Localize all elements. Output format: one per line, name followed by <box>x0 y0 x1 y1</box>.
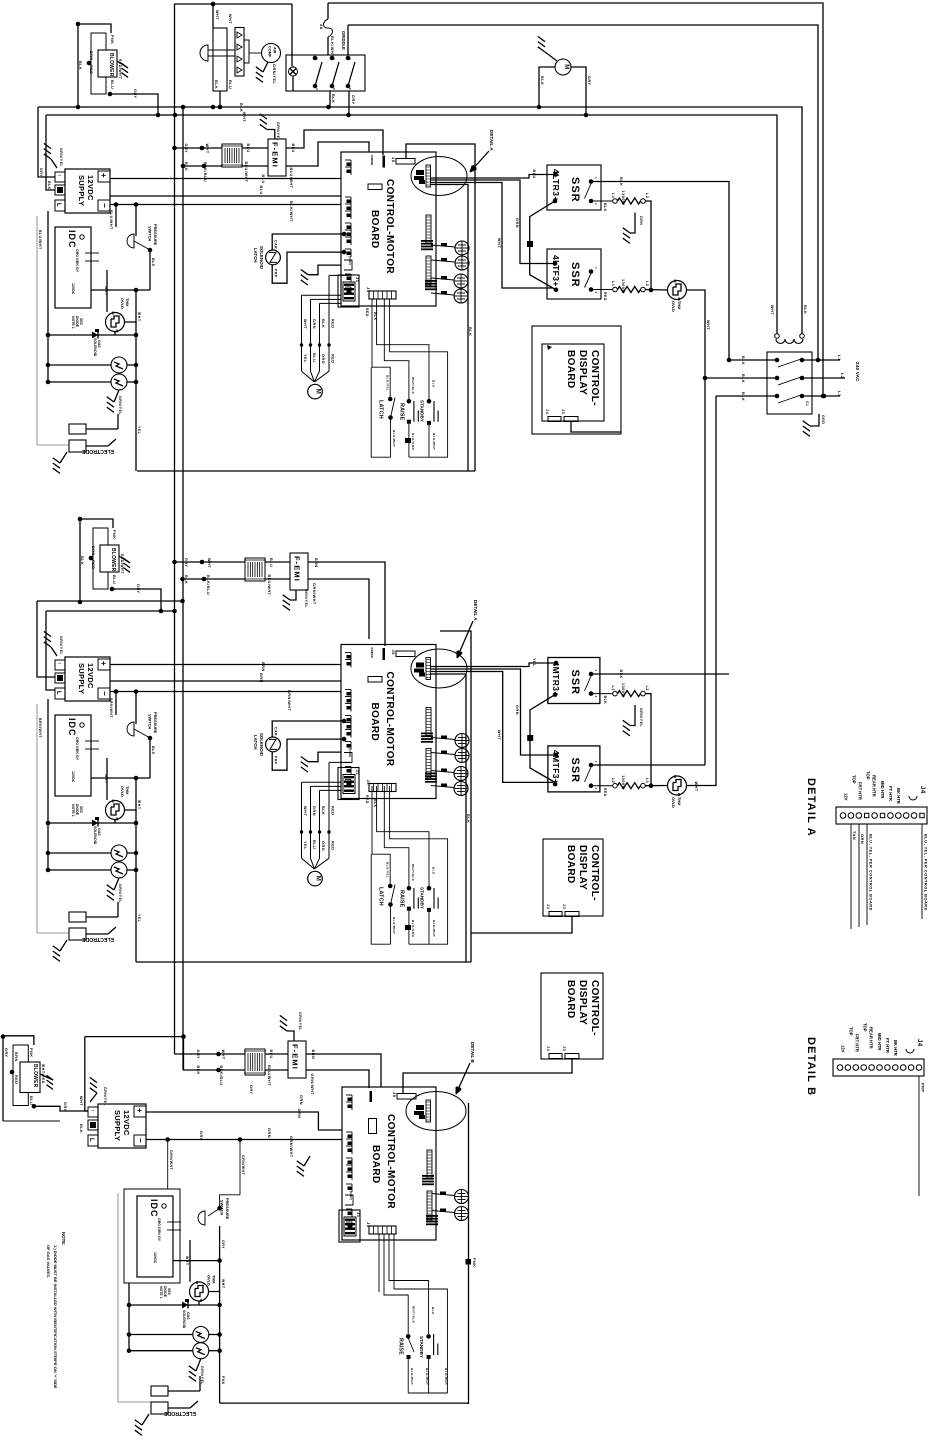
svg-text:TOP: TOP <box>852 775 857 784</box>
svg-text:SUPPLY: SUPPLY <box>113 1110 122 1141</box>
connector J3 DSP3 <box>565 1054 579 1059</box>
svg-text:DETAIL B: DETAIL B <box>470 1042 475 1063</box>
switch block bottom sec3 <box>408 1392 447 1394</box>
svg-text:YEL: YEL <box>532 658 536 667</box>
svg-text:SSR: SSR <box>569 177 581 203</box>
control-motor board U1 <box>341 152 436 306</box>
svg-text:MID HTR: MID HTR <box>877 1033 882 1050</box>
svg-text:LATCH: LATCH <box>378 400 384 419</box>
ground SSR resistor R1 <box>630 213 635 234</box>
control-display board DSP1 <box>532 326 621 434</box>
svg-text:WHT: WHT <box>215 10 219 20</box>
switch RAISE sec1 <box>407 399 412 404</box>
connector J4 detail A <box>836 807 927 824</box>
svg-text:PRESSURE: PRESSURE <box>153 224 158 246</box>
pressure switch PS2 <box>135 692 137 725</box>
wire TB1 row2 left <box>705 377 777 379</box>
svg-text:SSR: SSR <box>569 262 581 288</box>
svg-text:RED: RED <box>14 1075 18 1085</box>
indicator lamp DS1 <box>289 67 298 76</box>
svg-text:STANDBY: STANDBY <box>420 400 425 422</box>
wire F-EMI1 input hot <box>175 147 223 149</box>
power supply S3 12VDC SUPPLY <box>98 1104 146 1148</box>
svg-text:YEL: YEL <box>137 426 141 435</box>
svg-text:DETAIL A: DETAIL A <box>805 778 817 837</box>
wire DSP3 out <box>403 1059 572 1094</box>
wire TB1 row3 left <box>716 395 777 397</box>
svg-text:BLK: BLK <box>741 374 745 383</box>
wire F-EMI1 out 1 <box>286 130 383 155</box>
svg-text:2: 2 <box>594 292 598 294</box>
svg-text:WHT: WHT <box>242 112 246 122</box>
svg-text:BLU/WHT: BLU/WHT <box>38 230 42 250</box>
svg-text:ORN: ORN <box>297 1109 301 1119</box>
relay K1 contact 2 <box>330 56 335 61</box>
line filter choke L2F <box>245 558 265 581</box>
detail connector ellipse board U1 <box>411 157 467 196</box>
connector J3 board U2 <box>369 784 396 792</box>
switch STANDBY sec3 <box>426 1334 431 1339</box>
wire SSR3 to SSR4 series link <box>530 695 556 783</box>
ground blower B3 <box>40 1074 53 1080</box>
svg-text:GRY: GRY <box>249 1085 253 1095</box>
svg-text:BLU: BLU <box>228 80 232 89</box>
diode D2 <box>92 820 98 827</box>
wire supply S2 plus to board <box>110 664 341 666</box>
solid state relay SSR4 <box>548 746 600 792</box>
wire board U1 line 4 down <box>430 185 468 472</box>
svg-text:PRP: PRP <box>274 756 278 765</box>
circuit breaker CB1 4A <box>327 3 329 19</box>
svg-text:J1: J1 <box>355 277 360 283</box>
wire blower B2 left drop <box>79 519 81 602</box>
ground igniters sec3 <box>196 1359 201 1371</box>
svg-text:BLU: BLU <box>110 80 114 89</box>
svg-text:BLU, YEL, PER CONTROL BOARD: BLU, YEL, PER CONTROL BOARD <box>869 834 874 911</box>
wire F-EMI3 input hot <box>175 1053 246 1055</box>
board U1 output connector strips <box>426 215 431 243</box>
svg-text:BLK/WHT: BLK/WHT <box>330 36 334 57</box>
wire sec3 left drop <box>128 1283 130 1351</box>
svg-text:J3: J3 <box>561 409 566 415</box>
svg-text:BRN: BRN <box>89 51 93 61</box>
svg-text:TAN: TAN <box>852 831 857 840</box>
wire SSR1 out to terminal row 1 <box>591 182 729 361</box>
svg-text:GRN/YEL: GRN/YEL <box>118 396 122 415</box>
thermal overload THM1 <box>106 313 125 332</box>
relay K1 contact 1 <box>313 56 318 61</box>
switch LATCH sec2 <box>388 884 393 889</box>
svg-text:REAR HTR: REAR HTR <box>872 775 877 797</box>
svg-text:12VDC: 12VDC <box>71 283 75 295</box>
igniter E4 <box>111 862 127 878</box>
switch STANDBY sec1 <box>427 399 432 404</box>
svg-text:WHT: WHT <box>185 1256 189 1266</box>
svg-text:WHT: WHT <box>497 238 501 248</box>
ground fan motor M5 <box>545 52 557 61</box>
svg-text:GRY: GRY <box>196 1050 200 1060</box>
wire SSR3 pin2 to resistor R3 <box>591 693 612 695</box>
wire IDC1 gy to THM <box>106 270 108 312</box>
ground board U3 <box>304 1156 310 1166</box>
svg-text:GRN/YEL: GRN/YEL <box>59 636 63 655</box>
svg-text:SWITCH: SWITCH <box>148 714 153 730</box>
wire supply S1 minus to board <box>110 204 341 206</box>
section 3 bottom boundary <box>220 1402 469 1404</box>
svg-text:GRN/YEL: GRN/YEL <box>118 884 122 903</box>
svg-text:BLU: BLU <box>532 170 536 179</box>
svg-text:L1: L1 <box>611 686 615 691</box>
svg-text:GRIDDLE: GRIDDLE <box>341 31 346 50</box>
wire THM1 right <box>125 290 136 322</box>
svg-text:GY: GY <box>75 267 79 273</box>
transformer T1 primary coil <box>775 334 780 339</box>
svg-text:1300W: 1300W <box>621 191 625 206</box>
detail connector ellipse board U3 <box>406 1092 466 1131</box>
svg-text:RED: RED <box>331 841 335 851</box>
svg-text:1.) DIODE MUST BE INSTALLED WI: 1.) DIODE MUST BE INSTALLED WITH IDENTIF… <box>53 1245 58 1389</box>
svg-text:12V: 12V <box>841 1045 846 1053</box>
svg-text:GRN/WHT: GRN/WHT <box>310 1074 314 1096</box>
svg-text:WHT: WHT <box>221 1050 225 1060</box>
svg-text:[CHR]: [CHR] <box>349 1191 353 1200</box>
svg-text:BLK/GRN: BLK/GRN <box>411 920 415 937</box>
svg-text:GRY: GRY <box>199 1131 203 1141</box>
control-display board DSP2 <box>543 839 603 916</box>
wire J1 fan leads sec1 <box>302 294 342 296</box>
svg-text:1: 1 <box>594 670 598 672</box>
svg-text:BRN/WHT: BRN/WHT <box>38 718 42 738</box>
driver transistors U3 <box>455 1190 469 1204</box>
connector J4 DSP3 <box>549 1054 562 1059</box>
svg-text:J1: J1 <box>356 1212 361 1218</box>
svg-text:BLU: BLU <box>312 353 316 362</box>
diode D1 <box>92 332 98 339</box>
svg-text:REAR HTR: REAR HTR <box>869 1027 874 1049</box>
wire top bus A <box>174 3 292 5</box>
igniter E6 <box>193 1343 209 1359</box>
svg-text:BLK: BLK <box>47 181 51 190</box>
wire sec3 right drop <box>219 1292 221 1404</box>
wire gas valve row <box>48 334 136 336</box>
svg-text:RED/WHT: RED/WHT <box>118 59 122 79</box>
svg-text:BOARD: BOARD <box>369 210 380 249</box>
svg-text:4: 4 <box>315 88 319 90</box>
wire SSR2 pin2 to resistor R2 <box>591 289 612 291</box>
svg-text:BLK: BLK <box>239 103 243 112</box>
svg-text:GRN/WHT: GRN/WHT <box>289 1136 293 1158</box>
wire bus to supply S1 terminal 1 <box>38 107 55 177</box>
wire pressure switch PS2 down <box>149 738 151 778</box>
svg-text:RED: RED <box>365 795 369 804</box>
svg-text:BLOWER: BLOWER <box>108 53 114 77</box>
blower motor B2 <box>78 517 83 522</box>
svg-text:L3: L3 <box>645 778 649 783</box>
svg-text:SSR: SSR <box>569 758 581 784</box>
svg-text:RED: RED <box>331 806 335 816</box>
svg-text:OVLD: OVLD <box>120 298 125 309</box>
wire sec3 bus to supply <box>85 1036 184 1038</box>
svg-text:↑: ↑ <box>56 174 62 178</box>
ground blower B1 <box>117 61 128 68</box>
wire DSP1 to enclosure <box>571 422 621 433</box>
svg-text:L2: L2 <box>645 193 649 198</box>
wire YEL down sec1 <box>135 322 137 382</box>
svg-text:F-EMI: F-EMI <box>293 556 302 582</box>
svg-text:J4: J4 <box>546 1046 551 1052</box>
wire top bus B <box>328 3 823 396</box>
board U3 connector strips <box>427 1150 432 1178</box>
relay K1 contact 3 <box>346 56 351 61</box>
svg-text:BLK/WHT: BLK/WHT <box>410 1368 414 1385</box>
svg-text:J5: J5 <box>392 1092 397 1098</box>
svg-text:BLU/WHT: BLU/WHT <box>244 162 248 183</box>
wire J3 drops sec3 <box>378 1234 380 1292</box>
svg-text:BLK/WHT: BLK/WHT <box>444 1368 448 1385</box>
svg-text:BLK: BLK <box>196 1066 200 1075</box>
wire J1 fan leads sec2 <box>302 781 342 783</box>
igniter E5 <box>193 1327 209 1343</box>
wire lamp feed <box>291 4 293 66</box>
svg-text:J4: J4 <box>916 1039 922 1047</box>
igniter E2 <box>111 374 127 390</box>
svg-text:WHT: WHT <box>137 312 141 322</box>
svg-text:4LTF3+: 4LTF3+ <box>551 255 561 287</box>
wire F-EMI2 out 1 <box>308 562 385 646</box>
wire SSR4 pin1 to vertical <box>591 764 705 766</box>
svg-text:5: 5 <box>332 88 336 90</box>
svg-text:WHT: WHT <box>79 1096 83 1106</box>
solid state relay SSR1 <box>547 165 601 210</box>
wire IDC1 12vdc out <box>91 289 150 291</box>
svg-text:L: L <box>88 1138 94 1142</box>
wire gas valve row sec3 <box>129 1304 220 1306</box>
svg-text:BLK/WHT: BLK/WHT <box>289 201 293 222</box>
svg-text:RED: RED <box>331 319 335 329</box>
ground supply S3 <box>90 1093 97 1102</box>
connector J5 board U3 <box>397 1094 416 1100</box>
air compressor connector P1 <box>212 27 214 29</box>
svg-text:SWITCH: SWITCH <box>148 226 153 242</box>
svg-text:BRN: BRN <box>14 1052 18 1062</box>
svg-text:L1: L1 <box>611 193 615 198</box>
svg-text:FRT HTR: FRT HTR <box>858 782 863 800</box>
svg-text:PNK: PNK <box>110 35 114 45</box>
connector pins P1 <box>235 28 244 77</box>
svg-text:RED: RED <box>91 560 95 570</box>
svg-text:BLK: BLK <box>619 177 623 186</box>
ground igniters sec2 <box>114 878 119 890</box>
svg-text:12VDC: 12VDC <box>153 1252 157 1264</box>
connector J1 board U3 <box>339 1210 360 1242</box>
wire supply S3 minus to board <box>146 1139 342 1141</box>
wire supply left drop <box>47 211 49 381</box>
wire gas valve row sec2 <box>48 822 136 824</box>
wire blower B2 output GRY <box>110 587 115 592</box>
connector J1 board U1 <box>338 275 359 307</box>
svg-text:THM: THM <box>677 797 682 805</box>
ground electrode sec2 <box>60 940 67 951</box>
wire F-EMI3 input neutral <box>184 1037 246 1070</box>
svg-text:GRN: GRN <box>75 258 79 266</box>
control-motor board U2 <box>341 645 436 799</box>
wire IDC2 top <box>115 692 117 716</box>
filter F-EMI2 <box>290 553 308 590</box>
svg-text:WHT: WHT <box>303 319 307 329</box>
svg-text:BRN: BRN <box>311 1050 315 1060</box>
svg-text:PNK: PNK <box>221 1376 225 1385</box>
wire board U2 to SSR line 2 <box>430 669 556 755</box>
svg-text:GRY: GRY <box>351 95 355 105</box>
wire fan motor right <box>571 67 586 115</box>
svg-text:LATCH: LATCH <box>253 735 258 750</box>
svg-text:+: + <box>99 661 108 666</box>
svg-text:BLU: BLU <box>291 144 295 153</box>
pressure switch PS3 <box>220 1195 240 1208</box>
svg-text:COMP: COMP <box>268 46 272 58</box>
svg-text:M: M <box>315 389 321 395</box>
svg-text:12VDC: 12VDC <box>86 175 95 201</box>
svg-text:ORG: ORG <box>157 1218 161 1226</box>
svg-text:J1: J1 <box>355 770 360 776</box>
wire sec2 bus B to supply <box>46 611 55 690</box>
svg-text:GY: GY <box>75 755 79 761</box>
wire supply S3 plus to board <box>146 1112 342 1130</box>
svg-text:L2: L2 <box>611 778 615 783</box>
svg-text:C1: C1 <box>805 401 809 406</box>
svg-text:BLOWER: BLOWER <box>32 1064 38 1088</box>
svg-text:WHT: WHT <box>497 730 501 740</box>
svg-text:PRESSURE: PRESSURE <box>153 712 158 734</box>
svg-text:BLU: BLU <box>259 186 263 195</box>
svg-text:DISPLAY: DISPLAY <box>577 350 588 395</box>
svg-text:CONTROL-MOTOR: CONTROL-MOTOR <box>385 1114 396 1209</box>
board U2 output connector strips <box>426 708 431 736</box>
svg-text:GRN: GRN <box>75 746 79 754</box>
ground supply S1 <box>51 159 57 168</box>
svg-text:TOP: TOP <box>866 771 871 780</box>
svg-text:NOTE 1: NOTE 1 <box>159 1286 163 1299</box>
svg-text:BLK: BLK <box>741 392 745 401</box>
connector J3 DSP1 <box>564 417 578 422</box>
connector J3 board U1 <box>369 291 396 299</box>
wire supply S2 left drop <box>47 699 49 869</box>
wire sec2 bus A to supply <box>37 601 55 677</box>
svg-text:240 VAC: 240 VAC <box>855 362 860 382</box>
thermal overload THM4 <box>645 785 667 787</box>
svg-text:1300W: 1300W <box>621 683 625 698</box>
wire main bus N horizontal <box>46 115 777 334</box>
svg-text:OVLD: OVLD <box>120 786 125 797</box>
ground blower B2 <box>119 556 130 563</box>
svg-text:GRN: GRN <box>312 319 316 329</box>
electrode assembly sec1 <box>69 424 86 434</box>
svg-text:GRN: GRN <box>267 1128 271 1138</box>
svg-text:GRN: GRN <box>515 705 519 715</box>
svg-text:ORG: ORG <box>321 354 325 364</box>
wire blower B1 left drop <box>77 24 79 107</box>
wire supply S2 mid to board <box>110 680 341 682</box>
svg-text:BLK: BLK <box>214 80 218 89</box>
wire choke2 to F-EMI2 <box>265 561 290 563</box>
svg-text:GRN: GRN <box>515 218 519 228</box>
wire board U2 to SSR line 3 <box>430 672 553 783</box>
wire blower B3 to supply <box>32 1104 37 1109</box>
wire board U1 to SSR line 2 <box>430 180 555 264</box>
horn/buzzer LS1 <box>200 45 208 61</box>
wire TB1 row1 left <box>729 359 777 361</box>
svg-text:SWITCH: SWITCH <box>220 1200 225 1216</box>
connector J5 board U2 <box>396 651 415 657</box>
svg-text:GRN/YEL: GRN/YEL <box>272 64 276 85</box>
switch LATCH sec1 <box>388 397 393 402</box>
svg-text:BLU: BLU <box>246 144 250 153</box>
ground F-EMI1 <box>267 130 275 140</box>
svg-text:BLK: BLK <box>466 814 470 823</box>
wire YEL down sec2 <box>135 810 137 870</box>
wire THM3 right <box>125 778 136 810</box>
section 2 bottom boundary <box>136 961 471 963</box>
svg-text:L3: L3 <box>837 391 842 397</box>
thermal overload THM2 <box>645 289 667 292</box>
svg-text:WHT: WHT <box>205 144 209 154</box>
svg-text:12V: 12V <box>844 793 849 801</box>
svg-text:RED: RED <box>365 308 369 317</box>
svg-text:PNK: PNK <box>472 1258 476 1268</box>
solenoid latch SOL2 <box>266 737 281 752</box>
svg-text:GRN/YEL: GRN/YEL <box>639 708 643 727</box>
svg-text:F-EMI: F-EMI <box>291 1044 300 1070</box>
svg-text:THM: THM <box>677 301 682 309</box>
svg-text:2: 2 <box>594 788 598 790</box>
svg-text:BRN/WHT: BRN/WHT <box>109 698 113 718</box>
svg-text:J4: J4 <box>919 786 925 794</box>
svg-text:DISPLAY: DISPLAY <box>577 980 588 1025</box>
svg-text:LATCH: LATCH <box>253 248 258 263</box>
wire R1 to junction <box>645 201 651 290</box>
svg-text:J4: J4 <box>545 409 550 415</box>
svg-text:GRN/WHT: GRN/WHT <box>169 1150 173 1171</box>
svg-text:GRN/YEL: GRN/YEL <box>59 148 63 167</box>
wire sec2 bus A <box>37 600 183 602</box>
wire long vertical bus V2 <box>182 107 184 1070</box>
svg-text:GRY: GRY <box>4 1048 8 1058</box>
svg-text:GRY: GRY <box>136 584 140 594</box>
connector J4 DSP2 <box>549 912 562 917</box>
wire J3 drops sec2 <box>372 786 390 886</box>
svg-text:STANDBY: STANDBY <box>420 887 425 909</box>
svg-text:RAISE: RAISE <box>398 1338 404 1355</box>
svg-text:DETAIL B: DETAIL B <box>805 1037 817 1096</box>
driver transistors U1 <box>455 241 469 255</box>
svg-text:YEL: YEL <box>303 841 307 850</box>
wire IDC2 gy to THM3 <box>106 758 108 800</box>
wire board U2 line 4 down <box>430 674 466 962</box>
svg-text:BLOWER: BLOWER <box>110 548 116 572</box>
svg-text:WHT: WHT <box>706 320 710 330</box>
wire F-EMI2 input hot <box>175 561 246 563</box>
svg-text:BLK: BLK <box>741 356 745 365</box>
control-motor board U3 <box>342 1087 436 1240</box>
blower motor B1 <box>76 22 81 27</box>
svg-text:SOLENOID: SOLENOID <box>93 338 97 357</box>
svg-text:BLK: BLK <box>184 575 188 584</box>
svg-text:DISPLAY: DISPLAY <box>577 845 588 890</box>
svg-text:OVLD: OVLD <box>671 301 676 312</box>
svg-text:SOLENOID: SOLENOID <box>259 246 264 269</box>
switch RAISE sec3 <box>406 1334 411 1339</box>
svg-text:RAISE: RAISE <box>399 403 405 421</box>
